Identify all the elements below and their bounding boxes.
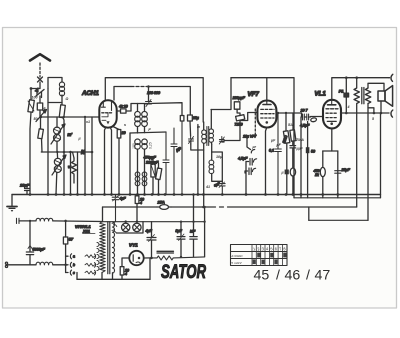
- wire right nested rect y220: [309, 207, 368, 220]
- svg-text:/: /: [276, 268, 280, 284]
- svg-text:8µF: 8µF: [176, 229, 183, 233]
- coil L-IF-sec lower: [209, 144, 222, 181]
- svg-text:µ: µ: [78, 137, 81, 141]
- label m': [68, 132, 73, 137]
- wire ACH1 cathode leads to bus: [105, 127, 112, 195]
- resistor R-47 slanted: [156, 163, 162, 195]
- capacitor C-coupling pair: [300, 109, 323, 128]
- svg-text:0,1: 0,1: [269, 149, 274, 153]
- svg-text:27A: 27A: [157, 200, 165, 205]
- lamp LP1: [102, 220, 205, 231]
- capacitor C-20 near ground: [19, 183, 30, 195]
- wire speaker return to bus: [380, 113, 382, 198]
- ground symbol: [7, 195, 17, 213]
- svg-text:41: 41: [205, 185, 210, 189]
- transformer T-IF windings: [202, 110, 214, 208]
- svg-text:51k: 51k: [288, 123, 295, 127]
- resistor Rh (slanted small): [38, 117, 44, 152]
- transformer T-out secondary zigzag: [365, 83, 384, 220]
- svg-text:10µ: 10µ: [193, 116, 199, 120]
- transformer T-out core: [362, 88, 364, 104]
- label N: [81, 150, 85, 156]
- svg-text:VF7: VF7: [248, 91, 260, 98]
- svg-text:VL1: VL1: [315, 91, 327, 98]
- wire output line y113: [341, 112, 390, 115]
- trimmer IF right: [219, 137, 224, 145]
- resistor R2 zigzag vertical: [68, 152, 77, 176]
- svg-text:4µF: 4µF: [146, 229, 153, 233]
- wire x92 down: [91, 117, 94, 195]
- svg-text:100µµF: 100µµF: [233, 96, 246, 100]
- wire transformer bottom: [102, 273, 113, 280]
- svg-text:10µ: 10µ: [216, 155, 222, 159]
- svg-text:100: 100: [32, 96, 38, 100]
- transformer T-power core: [108, 222, 110, 274]
- resistor R-ACH1 grid: [113, 127, 125, 195]
- svg-text:5 mΩ/V: 5 mΩ/V: [231, 261, 242, 265]
- coil Losc windings: [135, 104, 148, 134]
- svg-text:25µF: 25µF: [341, 168, 351, 172]
- capacitor C-8µF: [176, 221, 186, 259]
- wire bottom return y279: [77, 258, 150, 279]
- fuse 27A oval: [157, 200, 172, 210]
- svg-text:4: 4: [140, 201, 142, 205]
- capacitor C-166 to bus: [163, 132, 169, 195]
- wire x85 down: [84, 116, 86, 195]
- capacitor C-mains with arrow: [26, 221, 45, 265]
- resistor R-VY1: [120, 258, 129, 279]
- svg-text:4µF: 4µF: [120, 197, 127, 201]
- wire CV1 stubs: [56, 117, 58, 152]
- switch tap c: [66, 270, 96, 275]
- wire osc bottom y132.5: [130, 132, 166, 195]
- wire heater rail y197.8: [294, 197, 380, 199]
- svg-text:46: 46: [285, 268, 301, 284]
- wire antenna lead (dashed): [39, 63, 41, 77]
- main ground bus: [12, 194, 381, 196]
- wire VF7 grid: [240, 113, 258, 139]
- transformer T-power primary: [100, 222, 105, 273]
- terminal output top: [389, 74, 393, 81]
- choke L-filter: [152, 251, 205, 260]
- fuse 57: [63, 221, 74, 273]
- node antenna junction: [30, 87, 40, 90]
- svg-text:µF: µF: [270, 139, 276, 143]
- lamp LP2: [112, 220, 143, 233]
- svg-text:4: 4: [125, 272, 127, 276]
- resistor R-450 oval: [314, 167, 326, 177]
- svg-text:/: /: [306, 268, 310, 284]
- choke L2 slanted: [59, 103, 65, 195]
- trimmer IF left: [189, 137, 194, 145]
- svg-text:470µµF: 470µµF: [144, 156, 157, 160]
- resistor R-osc with label: [117, 105, 131, 114]
- resistor R-TMA slanted: [290, 113, 296, 196]
- svg-text:7150: 7150: [235, 123, 243, 127]
- wire x77.5 down: [77, 152, 79, 195]
- svg-text:µr: µr: [252, 145, 257, 149]
- terminal output bottom: [391, 110, 393, 117]
- capacitor C-MF: [190, 193, 197, 257]
- variable capacitor CV1 (tuning): [51, 124, 65, 144]
- label V77/VL1 X11: [75, 224, 95, 234]
- svg-text:5000µF: 5000µF: [33, 248, 46, 252]
- wire VL1 anode to top bus H1c: [332, 76, 389, 99]
- wire x70.5 down: [70, 152, 72, 195]
- capacitor C-avc: [171, 128, 182, 195]
- wire mains L2 y265: [5, 262, 66, 267]
- svg-text:4k 10: 4k 10: [119, 105, 128, 109]
- svg-text:4: 4: [347, 105, 350, 109]
- wire VF7 cathode down: [266, 128, 267, 195]
- svg-text:µµF: µµF: [296, 147, 304, 151]
- wire IF bottom y150: [191, 125, 204, 194]
- switch tap b: [66, 262, 96, 267]
- wire VF7 anode right: [276, 112, 301, 114]
- wire H1b VF7 box: [231, 78, 294, 198]
- svg-text:x1: x1: [85, 120, 90, 124]
- node bus junctions: [29, 193, 340, 196]
- logo SATOR: [161, 262, 206, 283]
- wire left vertical to ground bus: [30, 89, 31, 195]
- switch tap a: [66, 254, 96, 259]
- resistor R-10 bus: [135, 195, 144, 222]
- svg-text:µ: µ: [281, 171, 284, 175]
- table voltage chart: [230, 245, 287, 266]
- svg-text:a: a: [73, 255, 75, 259]
- svg-text:X11: X11: [82, 229, 91, 234]
- capacitor C-ant: [37, 96, 42, 113]
- capacitor C-4µF rect: [144, 222, 156, 260]
- switch S-ant arrow: [36, 110, 47, 122]
- label VL1: [315, 91, 327, 98]
- svg-text:s: s: [124, 123, 126, 127]
- wire mains L1 y221: [17, 218, 103, 223]
- wire L1 left down: [47, 103, 49, 195]
- coil L1 antenna primary loop: [48, 78, 65, 103]
- tube VY1: [129, 243, 144, 266]
- capacitor C-100µµF: [233, 96, 246, 115]
- capacitor C-4µF bus: [112, 195, 126, 222]
- capacitor C-10µ box: [188, 115, 199, 136]
- resistor R-1M: [151, 159, 155, 195]
- svg-text:MF: MF: [190, 230, 196, 234]
- svg-text:SATOR: SATOR: [161, 262, 206, 283]
- svg-text:µ: µ: [148, 127, 151, 131]
- capacitor C-224: [213, 181, 225, 194]
- wire y109 link: [211, 78, 231, 110]
- svg-text:µF: µF: [276, 143, 282, 147]
- trimmer capacitor CT1 with label 100 300: [146, 87, 161, 107]
- capacitor C-50 dark: [306, 122, 315, 198]
- wire VL1 cathode box: [323, 128, 338, 198]
- label ACH1: [81, 90, 99, 97]
- tube ACH1: [99, 100, 116, 127]
- coil Losc top loop: [131, 104, 149, 112]
- coil Losc2 windings: [135, 139, 148, 195]
- label model 45 / 46 / 47: [254, 268, 331, 284]
- label VF7: [248, 91, 260, 98]
- capacitor C-0.1: [269, 113, 281, 195]
- svg-text:Ω: Ω: [65, 97, 69, 101]
- capacitor C-10µ2: [176, 116, 184, 195]
- svg-text:c: c: [73, 271, 75, 275]
- wire x204.6 right edge of psu: [203, 206, 205, 257]
- svg-text:57: 57: [69, 237, 74, 242]
- wire dashed VF7: [254, 109, 256, 137]
- svg-text:A=60kΩ: A=60kΩ: [230, 254, 243, 258]
- tube VL1: [323, 100, 341, 129]
- resistor R-ant (slanted): [28, 100, 34, 113]
- svg-text:TMA: TMA: [296, 138, 304, 142]
- svg-text:m': m': [68, 132, 73, 137]
- svg-text:50: 50: [311, 150, 315, 154]
- label 216µµF: [145, 161, 159, 165]
- transformer T-power secondary: [113, 222, 115, 273]
- wire H1a top bus: [105, 78, 203, 122]
- svg-text:10: 10: [122, 131, 126, 135]
- svg-text:150: 150: [132, 143, 136, 149]
- svg-text:ACH1: ACH1: [81, 90, 99, 97]
- resistor R-7150 slanted: [224, 115, 245, 141]
- svg-text:47: 47: [315, 268, 331, 284]
- antenna: [30, 54, 50, 60]
- resistor R-out zigzag: [354, 78, 359, 207]
- wire VF7 anode top: [266, 78, 268, 102]
- switch cathode contacts and caps: [238, 140, 257, 195]
- svg-text:4,5µF: 4,5µF: [238, 157, 248, 161]
- svg-text:50: 50: [34, 117, 38, 121]
- transformer tap bumps: [97, 243, 99, 271]
- svg-text:F1: F1: [339, 89, 344, 94]
- variable capacitor CV2 (tuning): [52, 152, 66, 195]
- wire y152: [41, 151, 92, 154]
- antenna trimmer X: [38, 77, 43, 88]
- svg-text:2k: 2k: [314, 173, 319, 177]
- svg-text:20µF: 20µF: [19, 183, 30, 188]
- wire H2 inner bus: [114, 85, 190, 115]
- svg-text:0,25: 0,25: [149, 142, 153, 149]
- capacitor C-25µF: [335, 168, 351, 173]
- wire second bus y207: [103, 206, 357, 222]
- label micro annotations: [32, 96, 376, 190]
- label 470µµF: [144, 156, 157, 160]
- wire x301 to heater rail: [300, 117, 302, 198]
- svg-text:4,5µF: 4,5µF: [300, 124, 310, 128]
- wire grid line y117: [40, 116, 100, 118]
- speaker LS: [378, 86, 393, 113]
- coil Losc3 windings: [135, 172, 147, 186]
- wire x74 down: [73, 176, 75, 183]
- resistor R-51k slanted: [282, 113, 290, 195]
- svg-text:45: 45: [254, 268, 270, 284]
- tube VF7: [257, 101, 276, 128]
- spark-gap arrester: [35, 88, 44, 98]
- fuse F1: [339, 78, 349, 113]
- svg-text:10 7: 10 7: [301, 109, 309, 113]
- svg-text:VY1: VY1: [129, 243, 138, 248]
- svg-text:b: b: [73, 263, 75, 267]
- wire osc coil top to C-10µ: [149, 103, 183, 116]
